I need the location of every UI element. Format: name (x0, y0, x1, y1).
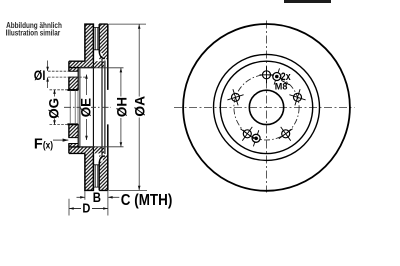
outline: outer plate top with J-fillet (99, 24, 108, 58)
outline: outboard face full height (107, 24, 109, 190)
center bore circle (249, 90, 283, 124)
white: vent gap top (93, 26, 99, 55)
vent rib lines bottom (93, 165, 99, 187)
outer circle (183, 24, 350, 191)
dim D extension line (68, 199, 70, 216)
hatch: inner plate bottom (85, 153, 94, 190)
vertical centerline (266, 21, 268, 193)
lug hole 234 (240, 127, 254, 141)
outline: inner plate top (85, 24, 94, 61)
outline: flange right face (77, 68, 79, 147)
svg-text:ØG: ØG (47, 98, 62, 119)
lug hole 162 (227, 89, 243, 105)
dim ØA extensions (109, 24, 148, 190)
lug hole 90 (260, 66, 274, 83)
white: vent J-tip top (98, 53, 103, 58)
label ØA (rotated, white bg) (135, 97, 146, 117)
lug hole 306 (279, 127, 293, 141)
outline: step bottom edge top-half (69, 67, 95, 69)
hatch: outer plate bottom (99, 155, 108, 190)
dim ØA line (138, 24, 140, 190)
background edge x100.6 (101, 59, 103, 156)
horizontal centerline (174, 106, 355, 108)
white: center bore (68, 90, 79, 124)
top cropped black bar (284, 0, 331, 3)
dim B line arrows outside (77, 196, 120, 198)
outline: flange hole I edges (68, 71, 78, 77)
hatch: outer plate top (99, 24, 108, 59)
dim ØH extensions (80, 68, 124, 147)
outline: bore top edge (67, 89, 78, 91)
dim ØG line (54, 90, 56, 125)
outline: flange left face (68, 61, 70, 153)
hub outer circle (220, 61, 312, 153)
svg-text:D: D (82, 200, 90, 215)
background edge x88.2 (92, 61, 94, 153)
dim ØE line (86, 75, 88, 140)
svg-text:ØE: ØE (78, 98, 93, 117)
dim ØH line (120, 68, 122, 147)
outline: outer plate bottom with J-fillet (99, 156, 108, 190)
friction inner circle (214, 54, 320, 160)
outline: step bottom half (69, 147, 95, 154)
leader under 2x (281, 80, 289, 85)
M8 hole bottom (252, 130, 260, 146)
white: vent J-tip bottom (98, 157, 103, 162)
hatch: inner plate top (85, 24, 94, 61)
svg-text:ØI: ØI (34, 68, 46, 83)
vent rib lines top (93, 28, 99, 50)
hatch: flange band (69, 68, 78, 147)
dim ØI line and arrows (47, 61, 49, 89)
background edge x104.1 (104, 61, 106, 155)
svg-text:F: F (34, 136, 43, 153)
svg-text:(x): (x) (43, 140, 53, 151)
svg-text:B: B (93, 190, 101, 205)
hatch: step bar bottom (69, 147, 104, 154)
outline: step top edge (69, 60, 85, 62)
dim B extension lines (85, 191, 108, 216)
svg-text:ØA: ØA (133, 96, 148, 117)
white: flange hole I top (68, 71, 78, 77)
outline: bore bottom edge (67, 123, 78, 125)
section axis centerline (64, 106, 111, 108)
white: vent gap bottom (93, 160, 99, 189)
dim ØG extension dashes (50, 90, 68, 125)
svg-text:ØH: ØH (114, 97, 129, 117)
M8 hole top (273, 68, 281, 84)
svg-text:Illustration similar: Illustration similar (6, 28, 61, 37)
outline: flange hole bottom edges (68, 138, 78, 144)
label ØE (rotated, white bg) (81, 96, 91, 119)
lug hole 18 (289, 89, 305, 105)
F leader arrow (53, 139, 68, 141)
dim ØI extension dashes (48, 71, 87, 77)
white: flange hole bottom (68, 138, 78, 144)
background edges in bore (70, 90, 78, 124)
bolt circle dash-dot (234, 75, 299, 140)
dim D line (69, 208, 108, 210)
svg-text:C (MTH): C (MTH) (121, 192, 173, 209)
hatch: step bar top (69, 61, 104, 67)
background edge x79.9 (79, 68, 81, 147)
label ØH (rotated, white bg) (116, 97, 126, 117)
outline: inner plate bottom (85, 153, 94, 190)
